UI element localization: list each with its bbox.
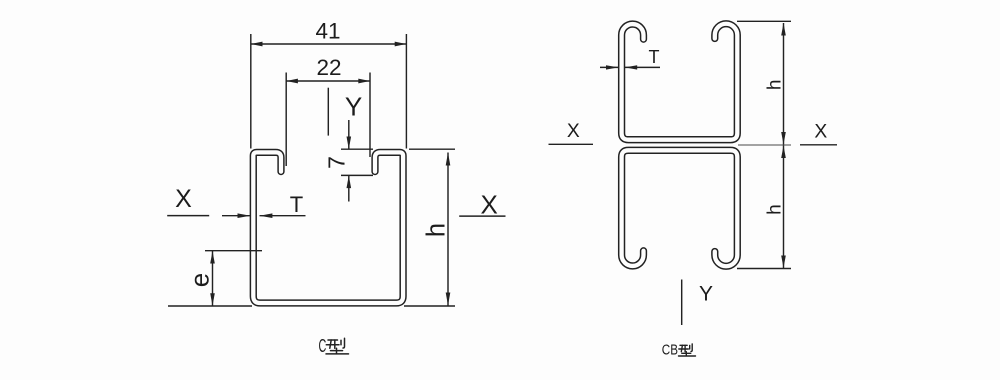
dimension T right arrow line CB (625, 66, 660, 68)
arrowhead T right (left) (260, 213, 273, 218)
svg-text:C: C (319, 335, 327, 356)
axis X-X left underline CB (549, 143, 594, 145)
arrowhead 7 lower (up) (347, 175, 352, 188)
arrowhead h top (up) (446, 153, 451, 166)
svg-text:CB: CB (662, 343, 678, 359)
dimension 22 extension right (369, 73, 371, 158)
arrowhead T left CB (right) (606, 65, 618, 69)
svg-text:41: 41 (315, 19, 340, 44)
svg-text:h: h (764, 204, 785, 215)
profile CB bottom channel (622, 150, 738, 266)
dimension h bottom extension CB (737, 268, 791, 270)
dimension h top extension CB (737, 20, 791, 22)
svg-text:X: X (567, 121, 580, 142)
arrowhead 41 left (251, 42, 263, 47)
dimension h bottom extension right (404, 305, 455, 307)
arrowhead e top (up) (210, 251, 215, 264)
svg-text:Y: Y (345, 92, 362, 122)
arrowhead h mid lower CB (up) (781, 146, 786, 159)
arrowhead h top CB (up) (781, 23, 786, 36)
dimension h top extension (409, 148, 455, 150)
dimension h lower line CB (783, 146, 785, 269)
dimension 7 upper arrow line (348, 120, 350, 149)
svg-text:22: 22 (316, 55, 341, 80)
arrowhead 22 right (358, 79, 370, 84)
svg-text:h: h (764, 80, 785, 91)
arrowhead 41 right (395, 42, 407, 47)
svg-text:X: X (814, 122, 827, 143)
svg-text:X: X (481, 190, 498, 220)
svg-text:T: T (649, 47, 660, 67)
svg-text:X: X (175, 185, 192, 213)
dimension 41 extension left (250, 34, 252, 149)
arrowhead h bottom (down) (446, 293, 451, 306)
arrowhead 7 upper (down) (347, 137, 352, 150)
dimension e bottom extension left (168, 305, 252, 307)
svg-text:e: e (185, 273, 215, 287)
svg-text:h: h (422, 223, 450, 237)
dimension T left arrow line CB (600, 66, 618, 68)
arrowhead T left (right) (238, 213, 251, 218)
dimension 7 lower arrow line (348, 175, 350, 201)
dimension 7 bottom reference line (341, 174, 373, 176)
svg-text:7: 7 (324, 156, 350, 169)
axis Y line CB (681, 280, 683, 326)
axis Y line (327, 88, 329, 136)
glyph 型 of CB型 (hand drawn) (679, 344, 696, 356)
arrowhead e bottom (down) (210, 293, 215, 306)
dimension e line (212, 251, 214, 306)
dimension 41 extension right (405, 34, 407, 149)
arrowhead 22 left (286, 79, 298, 84)
axis X-X left underline (167, 215, 209, 217)
dimension e top reference line (205, 250, 262, 252)
dimension 22 extension left (285, 73, 287, 167)
dimension h upper line CB (783, 23, 785, 145)
axis X-X right underline (459, 215, 505, 217)
dimension 7 top reference line (341, 148, 373, 150)
axis X-X right underline CB (800, 144, 837, 146)
dimension 22 line (287, 80, 371, 82)
axis X-X middle line (738, 144, 791, 146)
dimension 41 line (251, 43, 406, 45)
svg-text:T: T (290, 192, 303, 217)
dimension T right arrow line (260, 215, 306, 217)
glyph 型 of C型 (hand drawn) (326, 338, 349, 354)
dimension T left arrow line (222, 215, 250, 217)
arrowhead h mid upper CB (down) (781, 132, 786, 145)
arrowhead h bottom CB (down) (781, 256, 786, 269)
svg-text:Y: Y (699, 283, 713, 306)
profile C outline (sheet) (253, 152, 403, 303)
arrowhead T right CB (left) (625, 65, 637, 69)
dimension h line (447, 153, 449, 306)
profile CB top channel (622, 24, 738, 140)
